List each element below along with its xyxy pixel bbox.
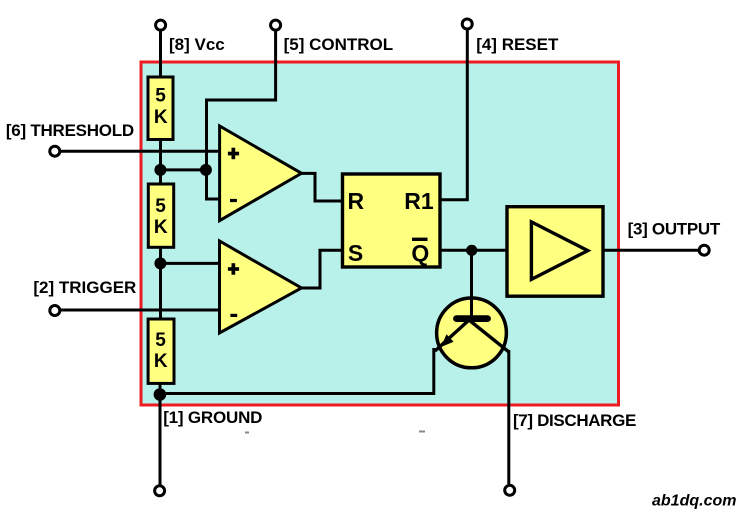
svg-text:[8] Vcc: [8] Vcc	[169, 35, 225, 54]
svg-text:[3] OUTPUT: [3] OUTPUT	[628, 219, 721, 238]
wire: Qbar node down to transistor base	[470, 250, 473, 318]
comparator U1 (threshold)	[220, 126, 302, 221]
terminal pin 6 Threshold	[50, 146, 60, 156]
svg-text:5: 5	[155, 330, 166, 351]
wire: resistor chain R2-R3	[159, 246, 162, 320]
svg-text:5: 5	[155, 196, 166, 217]
junction dot: control net	[200, 164, 212, 176]
terminal pin 3 Output	[699, 245, 709, 255]
wire: Vcc pin8 to resistor chain	[159, 28, 162, 78]
stray mark left of discharge label	[419, 431, 425, 433]
terminal pin 2 Trigger	[50, 306, 60, 316]
output buffer U4	[507, 207, 603, 297]
svg-text:K: K	[154, 107, 168, 128]
junction dot: divider mid tap	[154, 257, 166, 269]
terminal pin 7 Discharge	[505, 485, 515, 495]
svg-text:[7] DISCHARGE: [7] DISCHARGE	[513, 411, 636, 430]
junction dot: divider top tap	[154, 164, 166, 176]
wire: flip-flop Qbar output to buffer U4 input	[439, 249, 508, 252]
svg-text:R1: R1	[404, 188, 434, 214]
svg-text:5: 5	[155, 86, 166, 107]
wire: comparator U2 output to flip-flop S input	[300, 250, 344, 288]
svg-text:ab1dq.com: ab1dq.com	[652, 492, 736, 509]
svg-text:[1] GROUND: [1] GROUND	[163, 408, 262, 427]
terminal pin 8 Vcc	[156, 20, 166, 30]
wire: transistor emitter to ground rail	[160, 348, 434, 394]
svg-text:R: R	[348, 188, 365, 214]
resistor R1 5K	[148, 77, 173, 140]
terminal pin 5 Control	[271, 20, 281, 30]
svg-text:[4] RESET: [4] RESET	[476, 35, 559, 54]
wire: trigger pin2 to comparator U2 - input	[58, 309, 221, 312]
stray mark under ground label	[245, 432, 249, 434]
wire: resistor chain R1-R2	[159, 138, 162, 185]
svg-text:Q: Q	[411, 240, 429, 266]
flip-flop U3 (RS latch)	[343, 174, 441, 267]
resistor R2 5K	[148, 184, 173, 247]
svg-text:[6] THRESHOLD: [6] THRESHOLD	[6, 121, 134, 140]
wire: buffer U4 output to output pin3	[602, 249, 699, 252]
wire: flip-flop R1 output up to reset pin4	[439, 27, 467, 200]
svg-text:[5] CONTROL: [5] CONTROL	[284, 35, 394, 54]
svg-text:S: S	[348, 240, 363, 266]
wire: control pin5 to divider junction and U1 - input	[207, 28, 276, 199]
wire: threshold pin6 to comparator U1 + input	[58, 150, 221, 153]
terminal pin 1 Ground	[155, 486, 165, 496]
resistor R3 5K	[148, 319, 174, 383]
wire: transistor collector down to discharge pin7	[507, 350, 510, 487]
svg-text:K: K	[154, 217, 168, 238]
IC package boundary	[141, 62, 619, 405]
svg-text:[2] TRIGGER: [2] TRIGGER	[33, 278, 136, 297]
transistor Q1 (discharge)	[435, 298, 509, 368]
terminal pin 4 Reset	[462, 19, 472, 29]
comparator U2 (trigger)	[220, 241, 302, 333]
junction dot: ground rail	[154, 388, 167, 401]
svg-text:K: K	[154, 351, 168, 372]
wire: junction row between divider and control net	[160, 168, 206, 171]
wire: resistor chain R3 to ground pin1	[159, 382, 162, 487]
wire: comparator U1 output to flip-flop R input	[300, 173, 344, 201]
wire: divider mid-tap to comparator U2 + input	[160, 262, 221, 265]
junction dot: Qbar node	[466, 245, 477, 256]
